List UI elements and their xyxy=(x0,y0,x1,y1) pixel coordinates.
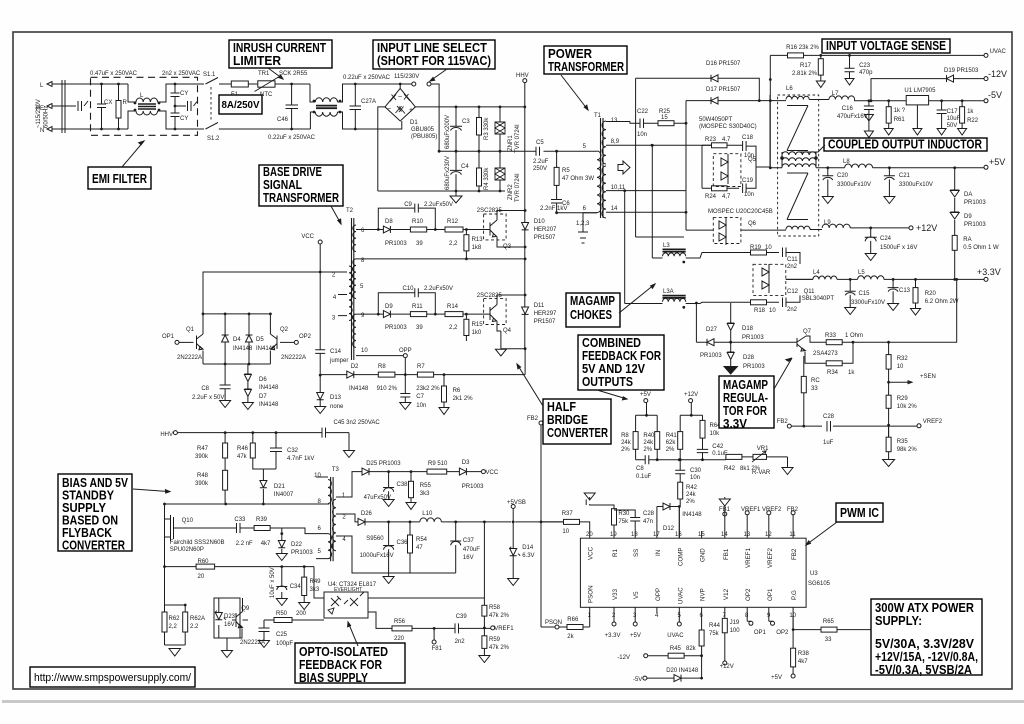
svg-text:R7: R7 xyxy=(417,364,425,370)
svg-text:-5V: -5V xyxy=(633,677,642,683)
svg-text:D28: D28 xyxy=(743,355,755,361)
svg-text:C30: C30 xyxy=(690,468,702,474)
svg-text:VR1: VR1 xyxy=(757,446,769,452)
svg-text:1uF: 1uF xyxy=(823,440,834,446)
svg-text:8A/250V: 8A/250V xyxy=(222,99,260,111)
svg-text:2,2: 2,2 xyxy=(169,624,178,630)
svg-text:L4: L4 xyxy=(813,270,820,276)
svg-text:15: 15 xyxy=(698,532,705,538)
svg-text:4.7: 4.7 xyxy=(722,137,731,143)
svg-text:2n2: 2n2 xyxy=(787,307,798,313)
svg-text:47uFx50V: 47uFx50V xyxy=(364,495,391,501)
svg-text:R1: R1 xyxy=(612,549,619,557)
svg-text:C19: C19 xyxy=(742,178,754,184)
svg-text:23k2 2%: 23k2 2% xyxy=(416,386,440,392)
svg-text:T3: T3 xyxy=(332,467,340,473)
svg-text:UVAC: UVAC xyxy=(667,633,684,639)
svg-text:REGULA-: REGULA- xyxy=(723,391,768,405)
svg-text:S1.2: S1.2 xyxy=(207,136,220,142)
svg-text:D9: D9 xyxy=(964,214,972,220)
svg-text:TRANSFORMER: TRANSFORMER xyxy=(548,60,624,74)
svg-text:0.22uF x 250VAC: 0.22uF x 250VAC xyxy=(343,75,391,81)
svg-text:2.2 nF: 2.2 nF xyxy=(236,541,253,547)
svg-text:R37: R37 xyxy=(562,511,574,517)
svg-text:R56: R56 xyxy=(394,619,406,625)
svg-text:D2: D2 xyxy=(351,364,359,370)
svg-text:SS: SS xyxy=(633,549,640,557)
svg-text:C9: C9 xyxy=(404,202,412,208)
svg-text:R39: R39 xyxy=(256,517,268,523)
svg-text:FB1: FB1 xyxy=(723,548,730,560)
svg-text:1k: 1k xyxy=(848,370,855,376)
svg-text:IN4148: IN4148 xyxy=(682,512,702,518)
svg-text:C45 3n2 250VAC: C45 3n2 250VAC xyxy=(334,420,381,426)
svg-text:60/50Hz: 60/50Hz xyxy=(44,106,50,128)
svg-text:INRUSH CURRENT: INRUSH CURRENT xyxy=(233,41,326,55)
svg-text:FB2: FB2 xyxy=(787,507,799,513)
svg-text:10: 10 xyxy=(789,613,796,619)
svg-text:2SC2825: 2SC2825 xyxy=(477,293,503,299)
svg-text:VREF1: VREF1 xyxy=(745,547,752,568)
svg-text:D11: D11 xyxy=(534,303,545,309)
svg-text:390k: 390k xyxy=(195,454,209,460)
svg-text:C27A: C27A xyxy=(361,99,376,105)
svg-text:IN4148: IN4148 xyxy=(233,346,253,352)
svg-text:UVAC: UVAC xyxy=(990,49,1007,55)
svg-text:VCC: VCC xyxy=(301,234,314,240)
svg-text:D19 PR1503: D19 PR1503 xyxy=(944,68,979,74)
svg-text:10n: 10n xyxy=(637,132,647,138)
svg-text:FB1: FB1 xyxy=(719,507,731,513)
svg-text:Q7: Q7 xyxy=(803,329,812,335)
svg-text:R42: R42 xyxy=(724,466,736,472)
svg-text:-5V: -5V xyxy=(988,90,1002,100)
svg-text:R14: R14 xyxy=(447,304,459,310)
svg-text:2%: 2% xyxy=(621,447,630,453)
svg-text:3300uFx10V: 3300uFx10V xyxy=(899,182,933,188)
svg-text:680uFx200V: 680uFx200V xyxy=(445,115,451,149)
svg-text:3300uFx10V: 3300uFx10V xyxy=(851,300,885,306)
svg-text:16: 16 xyxy=(675,532,682,538)
svg-text:RC: RC xyxy=(811,378,820,384)
svg-text:CX: CX xyxy=(104,100,112,106)
svg-text:1k0: 1k0 xyxy=(472,330,482,336)
svg-text:R8: R8 xyxy=(621,433,629,439)
svg-text:OUTPUTS: OUTPUTS xyxy=(582,375,633,389)
svg-text:SG6105: SG6105 xyxy=(808,581,831,587)
svg-text:2.2uF: 2.2uF xyxy=(533,159,549,165)
svg-text:C10: C10 xyxy=(403,286,415,292)
svg-text:17: 17 xyxy=(653,532,660,538)
svg-text:10k: 10k xyxy=(710,431,721,437)
svg-text:VREF1: VREF1 xyxy=(494,626,514,632)
svg-text:R54: R54 xyxy=(416,537,428,543)
svg-text:10uF: 10uF xyxy=(947,116,961,122)
svg-text:2N2222A: 2N2222A xyxy=(240,640,265,646)
svg-text:-5V/0.3A, 5VSB/2A: -5V/0.3A, 5VSB/2A xyxy=(875,663,972,677)
svg-text:COMBINED: COMBINED xyxy=(582,336,641,350)
svg-text:SBL3040PT: SBL3040PT xyxy=(802,296,835,302)
svg-text:+5V: +5V xyxy=(989,157,1005,167)
svg-text:2k: 2k xyxy=(567,634,574,640)
svg-text:BIAS SUPPLY: BIAS SUPPLY xyxy=(299,671,369,685)
svg-text:D8: D8 xyxy=(385,219,393,225)
svg-text:R46: R46 xyxy=(237,446,249,452)
svg-text:TVR 0724I: TVR 0724I xyxy=(515,124,521,153)
svg-text:NVP: NVP xyxy=(700,588,707,601)
svg-text:R48: R48 xyxy=(197,473,209,479)
svg-text:2SC2825: 2SC2825 xyxy=(477,208,503,214)
svg-text:470uF: 470uF xyxy=(463,547,480,553)
svg-text:R33: R33 xyxy=(825,333,837,339)
svg-text:+12V: +12V xyxy=(720,664,734,670)
svg-text:R24: R24 xyxy=(705,194,717,200)
svg-text:2n2: 2n2 xyxy=(455,639,466,645)
svg-text:R4 330k: R4 330k xyxy=(484,167,490,190)
svg-text:470uFx16V: 470uFx16V xyxy=(837,114,868,120)
svg-text:PR1003: PR1003 xyxy=(743,364,765,370)
svg-text:R47: R47 xyxy=(197,446,209,452)
svg-text:PSON: PSON xyxy=(545,620,562,626)
svg-text:62k: 62k xyxy=(666,440,677,446)
svg-text:10: 10 xyxy=(562,529,569,535)
svg-text:2.2uF x 50V: 2.2uF x 50V xyxy=(192,395,224,401)
svg-text:OP1: OP1 xyxy=(767,588,774,601)
svg-text:COMP: COMP xyxy=(677,547,684,566)
svg-text:R19: R19 xyxy=(750,245,762,251)
svg-text:C42: C42 xyxy=(712,444,724,450)
svg-text:C36: C36 xyxy=(397,540,409,546)
svg-text:CONVERTER: CONVERTER xyxy=(547,426,608,440)
svg-text:4k7: 4k7 xyxy=(798,659,808,665)
svg-text:0.1uF: 0.1uF xyxy=(636,474,652,480)
svg-text:3k3: 3k3 xyxy=(420,491,430,497)
svg-text:L6: L6 xyxy=(786,86,793,92)
svg-text:D18: D18 xyxy=(742,326,754,332)
svg-text:+5V: +5V xyxy=(630,633,641,639)
svg-text:http://www.smpspowersupply.com: http://www.smpspowersupply.com/ xyxy=(34,672,192,684)
svg-text:R15: R15 xyxy=(472,322,484,328)
svg-text:2,2: 2,2 xyxy=(449,325,458,331)
svg-text:MAGAMP: MAGAMP xyxy=(570,294,615,308)
svg-text:VCC: VCC xyxy=(486,470,499,476)
svg-text:LIMITER: LIMITER xyxy=(233,54,281,68)
svg-text:EVERLIGHT: EVERLIGHT xyxy=(334,587,362,593)
svg-text:EMI FILTER: EMI FILTER xyxy=(92,172,147,186)
svg-text:GND: GND xyxy=(700,548,707,562)
svg-text:PR1507: PR1507 xyxy=(534,235,556,241)
svg-text:RA: RA xyxy=(963,237,971,243)
svg-text:MAGAMP: MAGAMP xyxy=(723,378,768,392)
svg-text:16V: 16V xyxy=(224,622,235,628)
svg-text:SIGNAL: SIGNAL xyxy=(263,178,302,192)
svg-text:(MOSPEC S30D40C): (MOSPEC S30D40C) xyxy=(699,124,757,130)
svg-text:ZNR1: ZNR1 xyxy=(508,135,514,151)
svg-text:C16: C16 xyxy=(842,106,854,112)
svg-text:10: 10 xyxy=(765,245,772,251)
svg-text:10n: 10n xyxy=(416,403,426,409)
svg-text:J19: J19 xyxy=(730,620,740,626)
svg-text:10: 10 xyxy=(361,348,368,354)
svg-text:2N2222A: 2N2222A xyxy=(177,355,202,361)
svg-text:+12V: +12V xyxy=(684,392,698,398)
svg-text:D16 PR1507: D16 PR1507 xyxy=(706,61,741,67)
svg-text:(SHORT FOR 115VAC): (SHORT FOR 115VAC) xyxy=(377,54,491,68)
svg-text:C13: C13 xyxy=(899,288,911,294)
svg-text:Q4: Q4 xyxy=(503,328,512,334)
svg-text:C21: C21 xyxy=(899,173,911,179)
svg-text:+3.3V: +3.3V xyxy=(977,267,1001,277)
svg-text:D26: D26 xyxy=(361,511,373,517)
svg-text:250V: 250V xyxy=(533,166,547,172)
svg-text:11: 11 xyxy=(789,532,796,538)
svg-text:DA: DA xyxy=(964,192,972,198)
svg-text:50V: 50V xyxy=(947,123,958,129)
svg-text:U3: U3 xyxy=(810,571,818,577)
svg-text:14: 14 xyxy=(611,206,618,212)
svg-text:Q9: Q9 xyxy=(241,606,250,612)
svg-text:33: 33 xyxy=(811,386,818,392)
svg-text:13: 13 xyxy=(611,118,618,124)
svg-text:R50: R50 xyxy=(276,611,288,617)
svg-text:C34: C34 xyxy=(290,584,302,590)
svg-text:R44: R44 xyxy=(709,623,721,629)
svg-text:910 2%: 910 2% xyxy=(377,386,398,392)
svg-text:R34: R34 xyxy=(827,370,839,376)
svg-text:115/230V: 115/230V xyxy=(394,74,419,80)
svg-text:OP1: OP1 xyxy=(162,334,175,340)
svg-text:OPP: OPP xyxy=(399,348,412,354)
svg-text:R18: R18 xyxy=(754,308,766,314)
svg-text:TR1: TR1 xyxy=(258,71,270,77)
svg-text:5V/30A, 3.3V/28V: 5V/30A, 3.3V/28V xyxy=(875,637,975,651)
svg-text:PWM IC: PWM IC xyxy=(840,506,879,520)
svg-text:L5: L5 xyxy=(858,270,865,276)
svg-text:FB2: FB2 xyxy=(791,548,798,560)
svg-text:10: 10 xyxy=(769,308,776,314)
svg-text:C15: C15 xyxy=(859,291,871,297)
svg-text:L10: L10 xyxy=(422,511,433,517)
svg-text:+3.3V: +3.3V xyxy=(605,633,621,639)
svg-text:V5: V5 xyxy=(633,591,640,599)
svg-text:V12: V12 xyxy=(723,588,730,600)
svg-text:2.2: 2.2 xyxy=(190,624,199,630)
svg-text:R6: R6 xyxy=(453,388,461,394)
svg-text:POWER: POWER xyxy=(548,47,592,61)
svg-text:PSON: PSON xyxy=(588,585,595,603)
svg-text:PR1003: PR1003 xyxy=(742,335,764,341)
svg-text:OP2: OP2 xyxy=(299,334,312,340)
svg-text:18: 18 xyxy=(631,532,638,538)
svg-text:C28: C28 xyxy=(643,511,655,517)
svg-text:R59: R59 xyxy=(489,637,501,643)
svg-text:47: 47 xyxy=(416,545,423,551)
svg-text:20: 20 xyxy=(198,574,205,580)
svg-text:D1: D1 xyxy=(410,120,418,126)
svg-text:C11: C11 xyxy=(787,257,798,263)
svg-text:10uF x 50V: 10uF x 50V xyxy=(270,567,276,598)
svg-text:R5: R5 xyxy=(562,168,570,174)
svg-text:47k: 47k xyxy=(237,454,248,460)
svg-text:C39: C39 xyxy=(456,614,468,620)
svg-text:0.1uF: 0.1uF xyxy=(712,451,728,457)
svg-text:+: + xyxy=(409,107,413,114)
svg-text:D10: D10 xyxy=(534,219,546,225)
svg-text:HALF: HALF xyxy=(547,400,576,414)
svg-text:Q3: Q3 xyxy=(503,244,512,250)
svg-text:L3A: L3A xyxy=(663,289,674,295)
svg-text:+SEN: +SEN xyxy=(920,374,936,380)
svg-text:14: 14 xyxy=(721,532,728,538)
svg-text:D20 IN4148: D20 IN4148 xyxy=(666,668,699,674)
svg-text:Q2: Q2 xyxy=(280,327,289,333)
svg-text:D27: D27 xyxy=(706,327,718,333)
svg-text:R45: R45 xyxy=(670,646,682,652)
svg-text:C32: C32 xyxy=(287,448,299,454)
svg-text:R10: R10 xyxy=(412,219,424,225)
svg-text:2.2uFx50V: 2.2uFx50V xyxy=(424,286,453,292)
svg-text:C20: C20 xyxy=(837,173,849,179)
svg-text:ZNR2: ZNR2 xyxy=(508,184,514,200)
svg-text:MOSPEC U20C20C45B: MOSPEC U20C20C45B xyxy=(708,209,773,215)
svg-text:INPUT LINE SELECT: INPUT LINE SELECT xyxy=(377,41,487,55)
svg-text:R30: R30 xyxy=(618,511,630,517)
svg-text:UVAC: UVAC xyxy=(677,587,684,604)
svg-text:2%: 2% xyxy=(643,447,652,453)
svg-text:R41: R41 xyxy=(666,433,678,439)
svg-text:IN4148: IN4148 xyxy=(349,386,369,392)
svg-text:C22: C22 xyxy=(637,109,649,115)
svg-text:10n: 10n xyxy=(744,192,754,198)
svg-text:D22: D22 xyxy=(291,542,303,548)
svg-text:6.3V: 6.3V xyxy=(522,553,534,559)
svg-text:24k: 24k xyxy=(643,440,654,446)
svg-text:2n2 x 250VAC: 2n2 x 250VAC xyxy=(162,71,201,77)
svg-text:L9: L9 xyxy=(824,220,831,226)
svg-text:2SA4273: 2SA4273 xyxy=(813,351,838,357)
svg-text:TVR 0724I: TVR 0724I xyxy=(515,173,521,202)
svg-text:8,9: 8,9 xyxy=(611,139,620,145)
svg-text:L8: L8 xyxy=(843,159,850,165)
svg-text:19: 19 xyxy=(610,532,617,538)
svg-text:TRANSFORMER: TRANSFORMER xyxy=(263,191,339,205)
svg-text:+5V: +5V xyxy=(640,392,651,398)
svg-text:Fairchild SSS2N60B: Fairchild SSS2N60B xyxy=(170,540,225,546)
svg-text:4k7: 4k7 xyxy=(261,541,271,547)
svg-text:C8: C8 xyxy=(636,466,644,472)
svg-text:10: 10 xyxy=(314,473,321,479)
svg-text:L3: L3 xyxy=(663,243,670,249)
svg-text:R12: R12 xyxy=(447,219,459,225)
svg-text:F81: F81 xyxy=(432,646,443,652)
svg-text:+12V: +12V xyxy=(916,223,937,233)
svg-text:R62: R62 xyxy=(169,616,181,622)
svg-text:+5VSB: +5VSB xyxy=(507,500,526,506)
svg-text:PR1003: PR1003 xyxy=(700,353,722,359)
svg-text:2n2: 2n2 xyxy=(787,264,798,270)
svg-text:-12V: -12V xyxy=(617,655,630,661)
svg-text:C12: C12 xyxy=(787,289,799,295)
svg-text:GBU805: GBU805 xyxy=(411,127,435,133)
svg-text:L7: L7 xyxy=(832,91,839,97)
svg-text:300W ATX POWER: 300W ATX POWER xyxy=(875,601,974,615)
svg-text:R17: R17 xyxy=(800,63,812,69)
svg-text:10k 2%: 10k 2% xyxy=(897,404,918,410)
svg-text:FEEDBACK FOR: FEEDBACK FOR xyxy=(582,349,661,363)
svg-text:TOR FOR: TOR FOR xyxy=(723,404,767,418)
svg-text:D25 PR1003: D25 PR1003 xyxy=(366,461,401,467)
svg-text:PR1003: PR1003 xyxy=(964,222,986,228)
svg-text:SCK 2R55: SCK 2R55 xyxy=(279,71,308,77)
svg-text:24k: 24k xyxy=(621,440,632,446)
svg-text:C14: C14 xyxy=(330,349,342,355)
svg-text:OP2: OP2 xyxy=(745,588,752,601)
svg-text:98k 2%: 98k 2% xyxy=(897,447,918,453)
svg-text:R16 23k 2%: R16 23k 2% xyxy=(786,45,819,51)
svg-text:D14: D14 xyxy=(522,545,534,551)
svg-text:C25: C25 xyxy=(276,632,288,638)
svg-text:R29: R29 xyxy=(897,396,909,402)
svg-text:OPTO-ISOLATED: OPTO-ISOLATED xyxy=(299,645,388,659)
svg-text:R9 510: R9 510 xyxy=(428,461,448,467)
svg-text:T2: T2 xyxy=(346,208,354,214)
svg-text:C24: C24 xyxy=(880,236,892,242)
svg-text:R22: R22 xyxy=(967,118,979,124)
svg-text:PR1003: PR1003 xyxy=(462,484,484,490)
svg-text:VREF2: VREF2 xyxy=(923,419,943,425)
svg-text:4,7: 4,7 xyxy=(722,194,731,200)
svg-text:75k: 75k xyxy=(618,519,629,525)
svg-text:Q10: Q10 xyxy=(182,518,194,524)
svg-text:2N2222A: 2N2222A xyxy=(281,355,306,361)
svg-text:39: 39 xyxy=(416,325,423,331)
svg-text:Q11: Q11 xyxy=(804,289,816,295)
svg-text:jumper: jumper xyxy=(329,358,348,364)
svg-text:39: 39 xyxy=(416,241,423,247)
svg-text:50W4050PT: 50W4050PT xyxy=(699,117,733,123)
svg-text:R8: R8 xyxy=(378,364,386,370)
svg-text:20: 20 xyxy=(586,532,593,538)
svg-text:S9560: S9560 xyxy=(366,536,384,542)
svg-text:C17: C17 xyxy=(947,109,959,115)
svg-text:−: − xyxy=(387,106,391,113)
svg-text:CONVERTER: CONVERTER xyxy=(62,539,125,553)
svg-text:D23: D23 xyxy=(224,614,236,620)
svg-text:PR1003: PR1003 xyxy=(291,550,313,556)
svg-text:R62A: R62A xyxy=(190,616,205,622)
svg-text:75k: 75k xyxy=(709,631,720,637)
svg-text:200: 200 xyxy=(296,611,307,617)
svg-text:R13: R13 xyxy=(472,237,484,243)
svg-text:47k 2%: 47k 2% xyxy=(489,613,510,619)
svg-text:PR1003: PR1003 xyxy=(385,325,407,331)
svg-text:2%: 2% xyxy=(666,447,675,453)
svg-text:12: 12 xyxy=(765,532,772,538)
svg-text:4.7nF 1kV: 4.7nF 1kV xyxy=(287,456,314,462)
svg-text:Q5: Q5 xyxy=(748,157,757,163)
svg-text:C46: C46 xyxy=(277,117,289,123)
svg-text:IN4148: IN4148 xyxy=(256,346,276,352)
svg-text:P.G: P.G xyxy=(791,590,798,600)
svg-text:none: none xyxy=(330,404,344,410)
svg-text:OP2: OP2 xyxy=(776,630,789,636)
svg-text:SPU02N60P: SPU02N60P xyxy=(170,547,204,553)
svg-text:SUPPLY:: SUPPLY: xyxy=(875,614,922,628)
svg-text:IN4007: IN4007 xyxy=(274,492,294,498)
svg-text:OPP: OPP xyxy=(655,588,662,601)
svg-text:2.2nF 1kV: 2.2nF 1kV xyxy=(540,206,567,212)
svg-text:R32: R32 xyxy=(897,356,909,362)
